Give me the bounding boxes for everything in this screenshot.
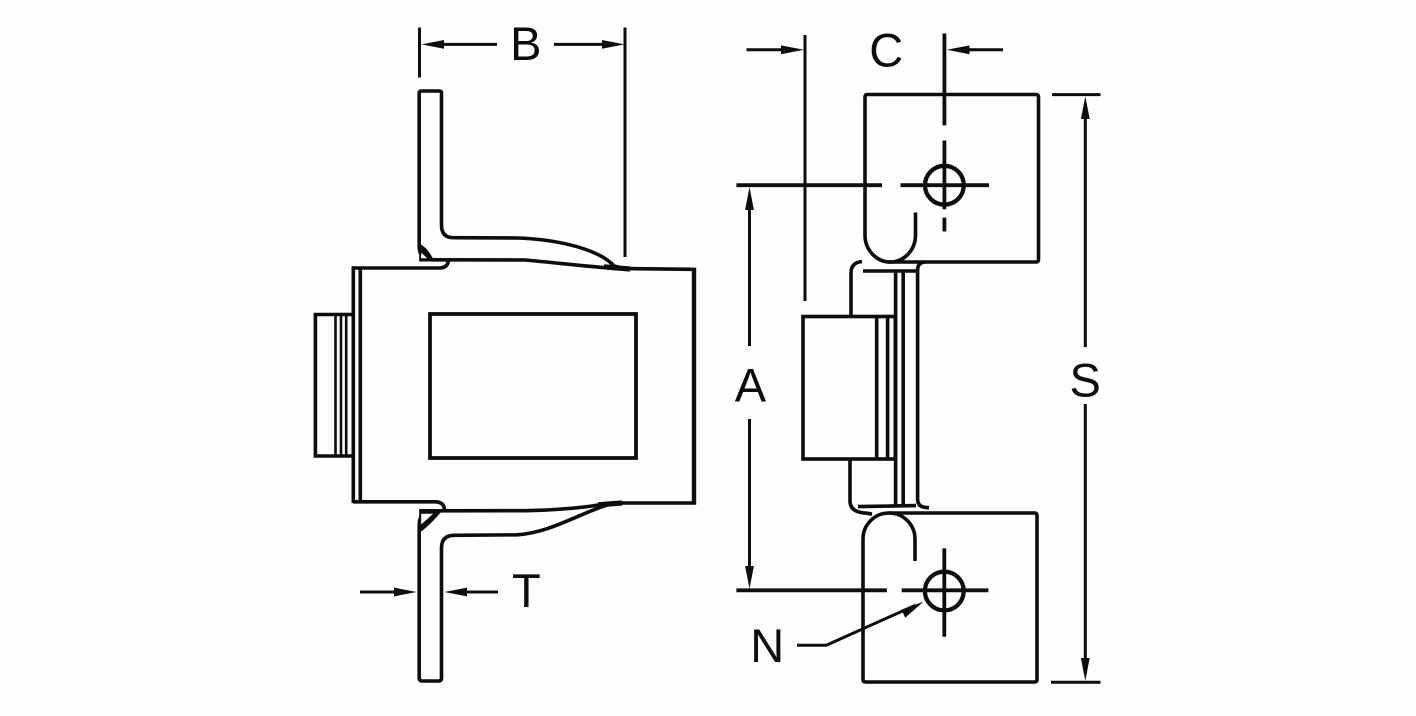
left view: body right edge bbox=[692, 268, 696, 505]
left view: bottom outer bend corner fill bbox=[419, 509, 443, 533]
left view: bottom flange top surface S-curve bbox=[432, 503, 611, 511]
dimension B: left extension line bbox=[418, 28, 421, 78]
left view: body bottom-right edge bbox=[611, 501, 694, 505]
right view: lower tab outline bbox=[863, 513, 1037, 682]
left view: body left edge inner line bbox=[358, 268, 362, 502]
right view: web line a bbox=[894, 272, 898, 506]
dimension B: right extension line bbox=[624, 28, 627, 258]
right view: upper tab U-slot bbox=[865, 213, 916, 263]
right view: lower tab dome slot bbox=[863, 513, 915, 561]
right view: lower hole bbox=[925, 572, 964, 611]
left view: top mounting tab (vertical leg) bbox=[419, 91, 441, 246]
right view: boss side inner line 2 bbox=[886, 317, 890, 460]
dimension T: left arrow bbox=[360, 591, 408, 594]
right view: neck horizontal edge bbox=[863, 269, 916, 273]
dimension S: top extension line bbox=[1052, 93, 1101, 96]
right view: boss side rectangle bbox=[803, 317, 895, 460]
note N: leader line with arrow bbox=[797, 605, 916, 645]
left view: rectangular window opening bbox=[430, 314, 636, 458]
left view: left boss rectangle bbox=[315, 315, 353, 457]
left view: body bottom-left edge with step down to bottom flange bbox=[353, 502, 445, 509]
left view: body left edge outer line bbox=[351, 266, 355, 503]
right view: lower neck horizontal edge bbox=[858, 506, 916, 507]
right view: web line b bbox=[901, 272, 905, 506]
dimension T: right arrow bbox=[453, 591, 498, 594]
left view: body top-left edge with step up to flange bbox=[353, 261, 449, 268]
right view: upper tab outline bbox=[865, 95, 1039, 263]
svg-text:S: S bbox=[1070, 354, 1101, 407]
left view: flange merge blob top bbox=[604, 267, 630, 269]
svg-text:A: A bbox=[735, 359, 767, 412]
dimension S: bottom extension line bbox=[1051, 681, 1101, 684]
dimension S: dimension line with arrows bbox=[1084, 104, 1087, 674]
left view: top flange inner bend and top surface S-curve bbox=[442, 225, 625, 269]
left view: boss face line 2 bbox=[340, 315, 343, 457]
dimension A: dimension line upper segment with up arrow bbox=[748, 196, 751, 346]
dimension C: right arrow bbox=[955, 48, 1003, 51]
left view: bottom bend white relief triangle bbox=[421, 514, 433, 525]
left view: boss face line 3 bbox=[345, 315, 348, 457]
right view: lower hole vertical centerline bbox=[942, 548, 946, 636]
svg-text:C: C bbox=[869, 24, 903, 77]
dimension C: left arrow bbox=[747, 48, 796, 51]
right view: upper hole horizontal centerline / A top extension bbox=[736, 183, 989, 187]
left view: bottom flange inner bend and bottom surface bbox=[442, 504, 612, 548]
right view: neck below upper tab, left line bbox=[851, 262, 862, 317]
left view: top outer bend corner fill bbox=[419, 244, 434, 262]
dimension A: dimension line lower segment with down arrow bbox=[748, 419, 751, 580]
right view: lower hole horizontal centerline / A bottom extension bbox=[736, 588, 988, 592]
right view: neck below boss, left line bbox=[850, 459, 872, 514]
svg-text:B: B bbox=[510, 17, 541, 70]
dimension B: left arrow bbox=[430, 43, 497, 46]
dimension B: right arrow bbox=[554, 43, 615, 46]
left view: boss face line 1 bbox=[334, 315, 337, 457]
right view: boss side inner line 1 bbox=[875, 317, 879, 460]
dimension C: left extension line bbox=[804, 35, 807, 301]
right view: upper hole vertical centerline (C extension) bbox=[943, 34, 947, 232]
right view: web right edge with corner arcs bbox=[918, 262, 929, 508]
left view: bottom flange outer bend and tab left edge bbox=[419, 511, 441, 681]
svg-text:N: N bbox=[750, 619, 784, 672]
svg-text:T: T bbox=[512, 564, 541, 617]
left view: top flange outer bend and bottom surface bbox=[419, 246, 617, 269]
left view: flange merge blob bottom bbox=[598, 503, 622, 505]
right view: upper hole bbox=[925, 166, 964, 205]
left view: top bend white relief triangle bbox=[421, 253, 427, 259]
left view: body top-right edge to corner bbox=[614, 267, 692, 271]
